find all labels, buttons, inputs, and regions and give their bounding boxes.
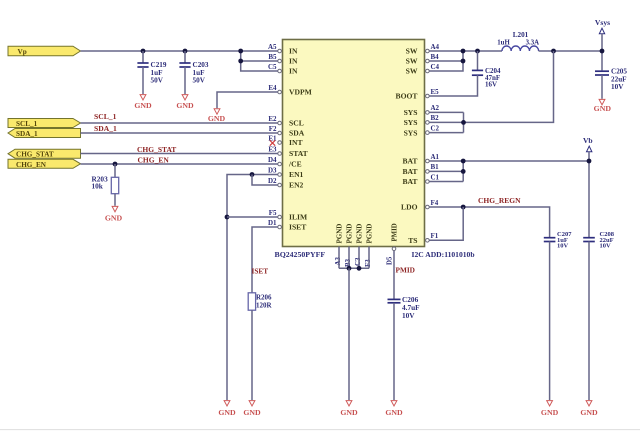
junction IN branch top xyxy=(238,49,243,54)
svg-text:GND: GND xyxy=(580,408,598,417)
junction BAT top xyxy=(461,159,466,164)
no-connect X on INT pin xyxy=(270,140,275,145)
pin C3 PGND (bottom) xyxy=(354,224,363,266)
pin B2 SYS (right) xyxy=(404,114,440,127)
svg-text:PGND: PGND xyxy=(336,224,344,244)
svg-text:PGND: PGND xyxy=(356,224,364,244)
ground under C208 xyxy=(580,401,598,417)
wire PGND to ground xyxy=(348,268,350,400)
svg-text:D4: D4 xyxy=(268,156,277,164)
svg-text:E1: E1 xyxy=(268,134,277,142)
pin E4 VDPM (left) xyxy=(268,84,311,97)
pin F1 TS (right) xyxy=(408,232,439,245)
svg-text:BOOT: BOOT xyxy=(396,92,418,101)
svg-text:C2: C2 xyxy=(431,124,440,132)
power port Vsys xyxy=(595,18,610,70)
pin B4 SW (right) xyxy=(406,53,439,66)
ground PGND xyxy=(340,401,358,417)
svg-text:C205: C205 xyxy=(611,67,627,75)
junction SW branch B4 xyxy=(461,59,466,64)
svg-text:GND: GND xyxy=(541,408,559,417)
svg-text:ISET: ISET xyxy=(252,267,269,276)
svg-text:SYS: SYS xyxy=(404,118,418,127)
wire SDA xyxy=(81,132,278,134)
ground EN/ILIM rail xyxy=(218,401,236,417)
ground under R203 xyxy=(105,206,123,222)
svg-text:CHG_REGN: CHG_REGN xyxy=(478,196,521,205)
svg-text:L201: L201 xyxy=(513,31,529,39)
ground at VDPM xyxy=(208,109,226,123)
pin D2 EN2 (left) xyxy=(268,177,304,190)
svg-text:STAT: STAT xyxy=(289,149,308,158)
svg-text:16V: 16V xyxy=(485,80,497,88)
svg-text:C3: C3 xyxy=(354,257,362,266)
svg-text:SDA_1: SDA_1 xyxy=(16,130,38,138)
svg-text:C4: C4 xyxy=(431,63,440,71)
pin D3 EN1 (left) xyxy=(268,166,304,179)
svg-text:10V: 10V xyxy=(611,83,624,91)
capacitor C205 xyxy=(595,67,627,99)
pin A2 SYS (right) xyxy=(404,104,440,117)
svg-text:PMID: PMID xyxy=(392,223,399,241)
capacitor C206 xyxy=(388,295,421,400)
junction R203 tap xyxy=(113,162,118,167)
wire SW branch to B4/C4 xyxy=(429,51,463,71)
svg-text:PGND: PGND xyxy=(346,224,354,244)
svg-text:D3: D3 xyxy=(268,166,277,174)
pin F2 SDA (left) xyxy=(269,125,305,138)
svg-text:LDO: LDO xyxy=(401,203,418,212)
capacitor C219 xyxy=(137,51,166,94)
svg-text:B3: B3 xyxy=(344,258,352,267)
net label PMID xyxy=(396,265,415,274)
pin B1 BAT (right) xyxy=(402,163,439,176)
svg-text:IN: IN xyxy=(289,47,298,56)
svg-text:10V: 10V xyxy=(600,243,612,250)
wire IN branch to B5/C5 xyxy=(241,51,278,71)
junction EN2 branch xyxy=(250,172,255,177)
svg-text:CHG_EN: CHG_EN xyxy=(16,161,47,169)
svg-text:D1: D1 xyxy=(268,219,277,227)
wire ISET xyxy=(252,227,278,293)
pin E5 BOOT (right) xyxy=(396,88,440,101)
svg-text:D5: D5 xyxy=(387,256,394,265)
junction Vsys C205 xyxy=(600,49,605,54)
svg-text:VDPM: VDPM xyxy=(289,88,312,97)
resistor R206 xyxy=(248,293,272,400)
svg-text:SCL_1: SCL_1 xyxy=(16,120,38,128)
pin B5 IN (left) xyxy=(268,53,298,66)
svg-text:C203: C203 xyxy=(193,61,209,69)
pin F3 PGND (bottom) xyxy=(364,224,373,267)
junction SYS feed xyxy=(551,49,556,54)
svg-text:PMID: PMID xyxy=(396,265,415,274)
svg-text:GND: GND xyxy=(218,408,236,417)
svg-text:Vsys: Vsys xyxy=(595,18,610,27)
wire BAT to Vb xyxy=(429,160,589,162)
part designator BQ24250PYFF xyxy=(275,250,326,259)
svg-text:SCL: SCL xyxy=(289,119,304,128)
pin A1 BAT (right) xyxy=(402,153,439,166)
pin A5 IN (left) xyxy=(268,43,298,56)
svg-text:/CE: /CE xyxy=(288,160,302,169)
wire BAT branch xyxy=(429,161,463,182)
svg-text:BAT: BAT xyxy=(402,157,417,166)
junction SYS branch xyxy=(461,120,466,125)
svg-text:SDA_1: SDA_1 xyxy=(94,124,117,133)
port CHG_EN xyxy=(8,159,81,169)
wire STAT xyxy=(81,153,278,155)
wire /CE xyxy=(81,163,278,165)
net label SDA_1 xyxy=(94,124,117,133)
svg-text:GND: GND xyxy=(176,101,194,110)
junction PGND bar C3 xyxy=(357,266,362,271)
junction BAT B1 xyxy=(461,169,466,174)
wire LDO to C207 xyxy=(429,207,549,238)
ground under C205 xyxy=(594,99,612,112)
svg-text:F4: F4 xyxy=(431,199,439,207)
net label ISET xyxy=(252,267,269,276)
net label CHG_REGN xyxy=(478,196,521,205)
junction IN branch B5 xyxy=(238,59,243,64)
pin F5 ILIM (left) xyxy=(269,209,307,222)
pin E2 SCL (left) xyxy=(268,115,303,128)
wire EN1 to GND rail xyxy=(227,175,278,401)
net label CHG_EN xyxy=(138,156,170,165)
pin A4 SW (right) xyxy=(406,43,440,56)
svg-text:CHG_STAT: CHG_STAT xyxy=(16,151,54,159)
svg-text:GND: GND xyxy=(134,101,152,110)
svg-text:IN: IN xyxy=(289,67,298,76)
svg-text:ILIM: ILIM xyxy=(289,213,307,222)
svg-text:1uH: 1uH xyxy=(497,40,510,47)
svg-text:C1: C1 xyxy=(431,173,440,181)
capacitor C204 xyxy=(429,51,501,96)
junction C204 tap xyxy=(475,49,480,54)
wire Vp to IN A5 xyxy=(81,50,278,52)
ground under C203 xyxy=(176,95,194,110)
svg-text:B5: B5 xyxy=(268,53,277,61)
svg-text:SW: SW xyxy=(406,57,418,66)
junction SW branch top xyxy=(461,49,466,54)
pin C2 SYS (right) xyxy=(404,124,440,137)
wire PGND pins to bar xyxy=(339,247,369,269)
svg-text:F5: F5 xyxy=(269,209,277,217)
svg-text:BAT: BAT xyxy=(402,177,417,186)
pin F4 LDO (right) xyxy=(401,199,439,212)
svg-text:I2C ADD:1101010b: I2C ADD:1101010b xyxy=(412,250,475,259)
resistor R203 xyxy=(92,164,119,206)
svg-text:R206: R206 xyxy=(256,294,272,302)
port SDA_1 xyxy=(8,129,81,139)
svg-text:PGND: PGND xyxy=(366,224,374,244)
svg-text:GND: GND xyxy=(385,408,403,417)
svg-text:Vp: Vp xyxy=(18,48,27,56)
svg-text:SW: SW xyxy=(406,67,418,76)
svg-text:E5: E5 xyxy=(431,88,440,96)
svg-text:10V: 10V xyxy=(557,243,569,250)
junction LDO TS branch xyxy=(461,205,466,210)
wire SYS feed xyxy=(464,51,554,122)
svg-text:A2: A2 xyxy=(431,104,440,112)
svg-text:A5: A5 xyxy=(268,43,277,51)
svg-text:SYS: SYS xyxy=(404,128,418,137)
capacitor C208 xyxy=(583,231,614,400)
svg-text:A1: A1 xyxy=(431,153,440,161)
port Vp xyxy=(8,46,81,56)
wire VDPM to ground xyxy=(217,92,278,108)
svg-text:C5: C5 xyxy=(268,63,277,71)
capacitor C207 xyxy=(544,231,572,400)
note I2C ADD:1101010b xyxy=(412,250,475,259)
junction Vb wire xyxy=(587,159,592,164)
svg-text:E4: E4 xyxy=(268,84,277,92)
svg-text:SYS: SYS xyxy=(404,108,418,117)
svg-text:120R: 120R xyxy=(256,302,273,310)
svg-text:TS: TS xyxy=(408,236,417,245)
ground under C206 xyxy=(385,401,403,417)
junction ILIM tap xyxy=(225,215,230,220)
svg-text:EN2: EN2 xyxy=(289,181,304,190)
net label SCL_1 xyxy=(94,112,117,121)
svg-text:BQ24250PYFF: BQ24250PYFF xyxy=(275,250,326,259)
wire SW to inductor xyxy=(429,50,502,52)
svg-text:GND: GND xyxy=(340,408,358,417)
net label CHG_STAT xyxy=(137,145,176,154)
svg-text:B1: B1 xyxy=(431,163,440,171)
svg-text:D2: D2 xyxy=(268,177,277,185)
svg-text:GND: GND xyxy=(594,104,612,113)
svg-text:GND: GND xyxy=(208,114,226,123)
port CHG_STAT xyxy=(8,149,81,158)
svg-text:B4: B4 xyxy=(431,53,440,61)
wire LDO to TS xyxy=(429,207,463,240)
pin C1 BAT (right) xyxy=(402,173,439,186)
pin D5 PMID (bottom) xyxy=(387,223,399,265)
wire inductor to Vsys xyxy=(539,50,602,52)
svg-text:EN1: EN1 xyxy=(289,170,304,179)
svg-text:GND: GND xyxy=(105,214,123,223)
svg-text:F2: F2 xyxy=(269,125,277,133)
svg-text:E2: E2 xyxy=(268,115,277,123)
svg-text:ISET: ISET xyxy=(289,223,306,232)
svg-text:GND: GND xyxy=(243,408,261,417)
svg-text:IN: IN xyxy=(289,57,298,66)
svg-text:3.3A: 3.3A xyxy=(526,40,539,47)
svg-text:Vb: Vb xyxy=(583,136,593,145)
ground under C219 xyxy=(134,95,152,110)
inductor L201 xyxy=(497,31,539,51)
capacitor C203 xyxy=(179,51,208,94)
pin E3 STAT (left) xyxy=(268,145,307,158)
svg-text:F1: F1 xyxy=(431,232,439,240)
svg-text:E3: E3 xyxy=(268,145,277,153)
port SCL_1 xyxy=(8,119,81,129)
svg-text:BAT: BAT xyxy=(402,167,417,176)
svg-text:INT: INT xyxy=(289,138,303,147)
svg-text:10k: 10k xyxy=(92,182,104,191)
pin A3 PGND (bottom) xyxy=(334,224,343,266)
wire SCL xyxy=(81,122,278,124)
IC U201 BQ24250PYFF body xyxy=(283,40,425,247)
svg-text:F3: F3 xyxy=(364,259,372,267)
svg-text:50V: 50V xyxy=(193,77,206,85)
pin C5 IN (left) xyxy=(268,63,298,76)
pin D1 ISET (left) xyxy=(268,219,306,232)
junction C203 tap xyxy=(183,49,188,54)
pin B3 PGND (bottom) xyxy=(344,224,353,267)
ground under C207 xyxy=(541,401,559,417)
wire EN2 branch xyxy=(252,175,278,186)
wire ILIM xyxy=(227,216,278,218)
svg-text:50V: 50V xyxy=(151,77,164,85)
svg-text:B2: B2 xyxy=(431,114,440,122)
pin C4 SW (right) xyxy=(406,63,440,76)
power port Vb xyxy=(583,136,593,238)
junction PGND bar B3 xyxy=(347,266,352,271)
ground under R206 xyxy=(243,401,261,417)
svg-text:CHG_EN: CHG_EN xyxy=(138,156,170,165)
svg-text:CHG_STAT: CHG_STAT xyxy=(137,145,176,154)
svg-text:SW: SW xyxy=(406,47,418,56)
pin E1 INT (left) xyxy=(268,134,302,147)
svg-text:10V: 10V xyxy=(402,311,415,320)
svg-text:A3: A3 xyxy=(334,256,342,265)
svg-text:A4: A4 xyxy=(431,43,440,51)
svg-text:C219: C219 xyxy=(151,61,167,69)
svg-text:SCL_1: SCL_1 xyxy=(94,112,117,121)
junction C219 tap xyxy=(141,49,146,54)
svg-text:SDA: SDA xyxy=(289,129,305,138)
wire PMID xyxy=(393,251,395,299)
pin D4 /CE (left) xyxy=(268,156,302,169)
wire SYS branch xyxy=(429,112,463,132)
